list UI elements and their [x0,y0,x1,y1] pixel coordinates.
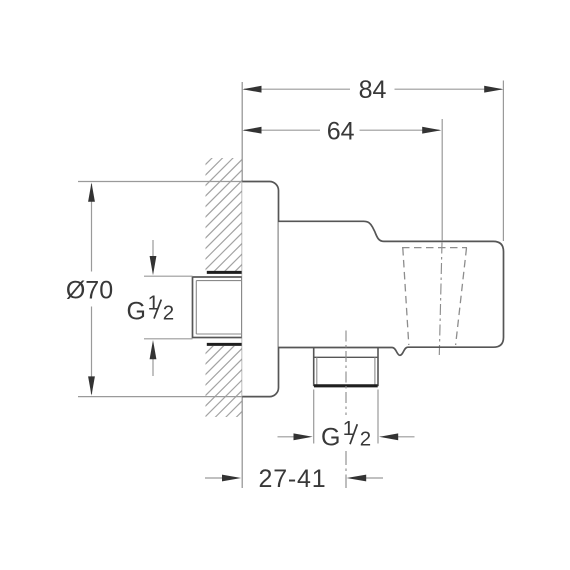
svg-text:27-41: 27-41 [259,465,327,493]
svg-text:2: 2 [360,427,371,450]
svg-text:64: 64 [327,118,355,146]
svg-text:84: 84 [359,76,387,104]
svg-text:G: G [127,297,146,325]
svg-text:Ø70: Ø70 [66,277,113,305]
svg-text:2: 2 [163,301,174,324]
svg-text:G: G [321,423,340,451]
